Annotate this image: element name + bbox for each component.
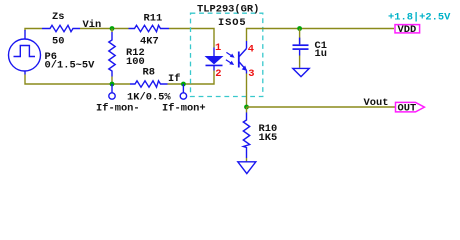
power flag VDD (395, 24, 420, 36)
resistor R10 (243, 107, 249, 162)
terminal If-mon+ (180, 84, 186, 99)
phototransistor of ISO5 (239, 41, 247, 74)
svg-text:+1.8|+2.5V: +1.8|+2.5V (388, 12, 451, 24)
ground under R10 (238, 162, 256, 174)
junction at C1 (297, 26, 302, 31)
terminal If-mon- (109, 84, 115, 99)
svg-text:Vin: Vin (83, 19, 102, 31)
svg-text:1: 1 (215, 42, 221, 54)
wire: emitter to Vout junction (246, 74, 248, 108)
wire: R11 to LED anode corner (169, 29, 214, 48)
junction If-mon- (110, 82, 115, 87)
LED of ISO5 (205, 48, 224, 71)
svg-text:1u: 1u (315, 48, 327, 60)
junction at Vin (110, 26, 115, 31)
svg-text:VDD: VDD (398, 24, 417, 36)
svg-text:3: 3 (248, 68, 254, 80)
svg-text:0/1.5~5V: 0/1.5~5V (45, 60, 96, 72)
junction If-mon+ (181, 82, 186, 87)
svg-text:TLP293(GR): TLP293(GR) (197, 4, 259, 16)
svg-text:R8: R8 (143, 67, 155, 79)
wire: Vout rail (247, 106, 396, 108)
resistor R8 (130, 81, 168, 87)
svg-text:1K5: 1K5 (259, 132, 278, 144)
resistor Zs (42, 25, 80, 31)
pulse source P6 (9, 30, 41, 75)
svg-text:R11: R11 (144, 13, 163, 25)
resistor R12 (109, 29, 115, 85)
capacitor C1 (293, 29, 309, 68)
svg-text:Vout: Vout (364, 97, 389, 109)
wire: bottom rail (25, 75, 130, 85)
ground under C1 (293, 68, 309, 76)
svg-text:50: 50 (52, 36, 64, 48)
svg-text:If-mon+: If-mon+ (162, 103, 206, 115)
wire: Zs to Vin node (80, 28, 129, 30)
junction at Vout (244, 105, 249, 110)
optocoupler ISO5 dashed body (191, 13, 263, 96)
wire: R8 to LED cathode corner (168, 71, 215, 85)
resistor R11 (129, 25, 170, 31)
svg-text:4: 4 (248, 44, 254, 56)
svg-text:If: If (168, 73, 180, 85)
light arrows (226, 52, 232, 63)
port OUT (396, 102, 425, 114)
svg-text:4K7: 4K7 (140, 36, 159, 48)
svg-text:Zs: Zs (52, 11, 64, 23)
wire: top rail from source to Zs (25, 29, 42, 31)
svg-text:2: 2 (215, 68, 221, 80)
wire: collector to VDD rail (247, 29, 395, 42)
svg-text:If-mon-: If-mon- (96, 103, 140, 115)
svg-text:ISO5: ISO5 (218, 17, 247, 29)
svg-text:OUT: OUT (398, 103, 417, 115)
